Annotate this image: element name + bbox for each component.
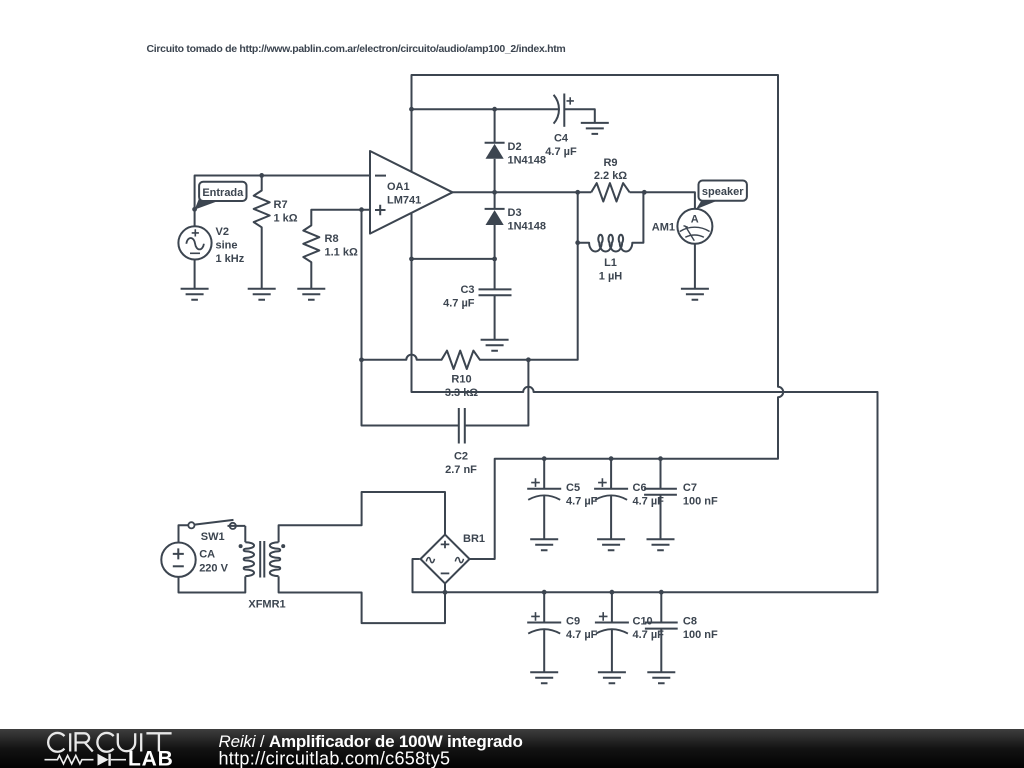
wire lower feedback loop: V- down, right along bottom, down right side, bottom bus, bridge left stub: [412, 259, 878, 592]
svg-text:100 nF: 100 nF: [683, 629, 718, 641]
node output row / feedback junction: [575, 190, 580, 195]
wire C2 right to R10 right node: [465, 360, 529, 426]
svg-text:C2: C2: [454, 451, 468, 463]
ground below C7: [647, 539, 675, 550]
transformer XFMR1 primary coil: [244, 542, 254, 576]
node non-inverting input junction: [359, 207, 364, 212]
capacitor C10: [595, 592, 629, 672]
node bottom bus C10: [610, 590, 615, 595]
node top bus C6: [609, 456, 614, 461]
ground below C10: [598, 672, 626, 683]
svg-text:4.7 µF: 4.7 µF: [566, 496, 598, 508]
svg-text:1 kΩ: 1 kΩ: [274, 213, 298, 225]
ground below C5: [530, 539, 558, 550]
wire switch to primary top: [244, 526, 246, 542]
svg-text:R9: R9: [603, 157, 617, 169]
node input wire / R7 top: [259, 173, 264, 178]
bridge rectifier BR1: [421, 535, 470, 584]
transformer XFMR1 secondary coil: [270, 542, 280, 576]
wire op-amp output row: [453, 191, 592, 193]
svg-text:220 V: 220 V: [199, 563, 228, 575]
svg-text:4.7 µF: 4.7 µF: [633, 496, 665, 508]
node D2 top junction: [492, 107, 497, 112]
flag Entrada: [195, 182, 247, 210]
voltage source V2 sine: [178, 226, 211, 259]
node top bus C7: [658, 456, 663, 461]
wire source top to switch: [179, 525, 189, 542]
svg-text:2.2 kΩ: 2.2 kΩ: [594, 170, 627, 182]
capacitor C2: [459, 408, 465, 444]
ground below AM1: [681, 289, 709, 300]
svg-text:BR1: BR1: [463, 533, 485, 545]
wire op-amp V- pin stub: [411, 213, 413, 259]
ground below C9: [530, 672, 558, 683]
ground below C8: [647, 672, 675, 683]
svg-text:speaker: speaker: [702, 186, 744, 198]
svg-text:SW1: SW1: [201, 531, 225, 543]
wire bridge bottom stub: [444, 583, 446, 592]
wire op-amp V+ pin stub: [411, 109, 413, 172]
svg-text:D2: D2: [508, 141, 522, 153]
svg-text:2.7 nF: 2.7 nF: [445, 464, 477, 476]
FOOTER: [0, 729, 1024, 768]
svg-text:1 µH: 1 µH: [599, 271, 623, 283]
ground at C4: [581, 123, 609, 134]
svg-text:R10: R10: [451, 374, 471, 386]
capacitor C9: [527, 592, 561, 672]
wire top rail loop: V+ node up to rail, right side drop with hop, top cap bus, down to bridge +: [412, 75, 784, 559]
svg-text:1.1 kΩ: 1.1 kΩ: [325, 247, 358, 259]
node Entrada flag anchor: [192, 207, 197, 212]
voltage source CA 220 V: [161, 543, 195, 577]
svg-text:C3: C3: [460, 284, 474, 296]
capacitor C6: [594, 459, 628, 540]
wire V2 bottom to ground: [194, 260, 196, 289]
wire ammeter to ground: [694, 244, 696, 289]
transformer core: [260, 541, 264, 578]
svg-text:LAB: LAB: [128, 748, 174, 768]
logo resistor zigzag: [45, 756, 94, 764]
ammeter AM1: [677, 209, 712, 244]
svg-text:4.7 µF: 4.7 µF: [443, 298, 475, 310]
node bottom bus C9: [542, 590, 547, 595]
resistor R7: [254, 175, 270, 288]
svg-text:OA1: OA1: [387, 181, 410, 193]
node R10 left junction: [359, 357, 364, 362]
node primary phase dot: [239, 544, 243, 548]
svg-text:AM1: AM1: [652, 222, 675, 234]
svg-text:Circuito tomado de http://www.: Circuito tomado de http://www.pablin.com…: [147, 43, 566, 55]
svg-text:Entrada: Entrada: [202, 187, 244, 199]
wire primary bottom loop to source: [179, 576, 246, 592]
svg-text:1N4148: 1N4148: [508, 155, 547, 167]
wire secondary top to bridge + (top vertex): [279, 492, 445, 542]
svg-text:4.7 µF: 4.7 µF: [566, 629, 598, 641]
footer bar: [0, 729, 1024, 768]
ground below C3: [481, 340, 509, 351]
svg-text:100 nF: 100 nF: [683, 496, 718, 508]
svg-text:L1: L1: [604, 257, 617, 269]
svg-text:1N4148: 1N4148: [508, 221, 547, 233]
resistor R8 with top wire to non-inverting input: [303, 210, 370, 289]
ground below R8: [297, 289, 325, 300]
node top bus C5: [542, 456, 547, 461]
svg-text:http://circuitlab.com/c658ty5: http://circuitlab.com/c658ty5: [219, 749, 451, 768]
wire R9 to ammeter: [630, 192, 695, 209]
wire feedback vertical to R10 row: [528, 192, 577, 359]
svg-text:CA: CA: [199, 549, 215, 561]
resistor R9: [591, 183, 629, 201]
capacitor C8: [645, 592, 678, 672]
capacitor C7: [644, 459, 677, 540]
diode D2 1N4148: [485, 109, 505, 192]
node V+ rail junction: [409, 107, 414, 112]
svg-text:C9: C9: [566, 616, 580, 628]
wire R10 feedback row with hop: [362, 351, 529, 369]
diode D3 1N4148: [485, 192, 505, 259]
svg-text:XFMR1: XFMR1: [248, 599, 285, 611]
svg-text:sine: sine: [216, 240, 238, 252]
flag speaker: [696, 181, 747, 210]
switch SW1: [188, 520, 245, 529]
wire V+ supply row to C4: [412, 108, 560, 110]
ground below V2: [181, 289, 209, 300]
svg-text:4.7 µF: 4.7 µF: [545, 146, 577, 158]
svg-text:C5: C5: [566, 482, 580, 494]
ground below C6: [597, 539, 625, 550]
capacitor C3: [479, 259, 512, 340]
node bridge bottom junction: [443, 590, 448, 595]
node output/diode junction: [492, 190, 497, 195]
wire V- row: [412, 258, 495, 260]
svg-text:1 kHz: 1 kHz: [216, 253, 245, 265]
svg-text:4.7 µF: 4.7 µF: [633, 629, 665, 641]
svg-text:C8: C8: [683, 616, 697, 628]
node V- junction: [409, 257, 414, 262]
svg-text:C4: C4: [554, 133, 569, 145]
node secondary phase dot: [281, 544, 285, 548]
svg-text:A: A: [691, 214, 699, 226]
svg-text:LM741: LM741: [387, 195, 421, 207]
node bottom bus C8: [659, 590, 664, 595]
capacitor C5: [527, 459, 561, 540]
node R10 right junction: [526, 357, 531, 362]
logo diode: [98, 754, 127, 766]
op-amp OA1 LM741: [370, 151, 453, 234]
node R9/L1 right junction: [642, 190, 647, 195]
inductor L1: [578, 192, 644, 251]
svg-text:D3: D3: [508, 207, 522, 219]
wire non-inverting node down to C2 left: [362, 210, 459, 426]
node L1 left junction: [575, 240, 580, 245]
svg-text:V2: V2: [216, 226, 229, 238]
capacitor C4: [554, 94, 595, 127]
svg-text:R8: R8: [325, 233, 339, 245]
wire secondary bottom to bridge bottom node: [279, 576, 445, 623]
wire V2 top to op-amp inverting input: [195, 176, 370, 227]
svg-text:R7: R7: [274, 199, 288, 211]
ground below R7: [248, 289, 276, 300]
logo CIRCUIT wordmark: [48, 733, 171, 752]
node D3 bottom junction: [492, 257, 497, 262]
svg-text:C7: C7: [683, 482, 697, 494]
